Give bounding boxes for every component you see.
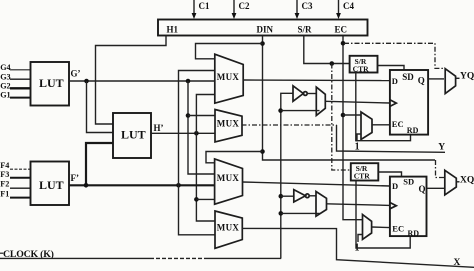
mux EC enable 1 — [355, 112, 390, 153]
svg-text:G4: G4 — [0, 63, 10, 72]
svg-text:CTR: CTR — [353, 64, 370, 73]
svg-text:S/R: S/R — [298, 25, 313, 35]
wire DIN branch to MUX3 — [206, 152, 263, 163]
svg-text:YQ: YQ — [460, 72, 474, 82]
wire G' drop to H LUT — [87, 81, 114, 133]
wire F' to MUX3 — [69, 184, 215, 186]
wire CLOCK K line dashed part — [150, 257, 205, 259]
svg-text:MUX: MUX — [217, 72, 240, 82]
flip-flop FF1 — [390, 70, 428, 135]
junction G' a — [84, 79, 89, 84]
node F2 input — [0, 180, 30, 189]
wire F' up to MUX1 — [179, 71, 215, 186]
wire K to inverter2 — [281, 195, 294, 197]
svg-text:CTR: CTR — [354, 172, 371, 181]
junction H' to MUX3 — [194, 197, 199, 202]
wire G' drop to MUX3 — [188, 81, 215, 174]
node C1 input line with arrow — [192, 0, 210, 19]
wire CLOCK K line end — [205, 257, 281, 259]
svg-text:1: 1 — [355, 142, 360, 153]
svg-text:MUX: MUX — [217, 173, 240, 183]
mux XQ output — [445, 170, 460, 195]
mux MUX4 — [215, 211, 242, 248]
junction K top — [278, 108, 283, 113]
svg-text:G’: G’ — [71, 69, 81, 79]
svg-text:SD: SD — [402, 72, 414, 82]
wire EC vertical drop — [343, 36, 363, 220]
wire EC bypass dash to YQ mux — [344, 43, 445, 68]
mux clock polarity 2 — [316, 192, 390, 217]
inverter clock 1 — [293, 86, 316, 102]
wire K to clock mux2 — [281, 212, 320, 214]
svg-text:G3: G3 — [0, 72, 10, 81]
node CLOCK K label — [0, 252, 3, 254]
svg-text:RD: RD — [408, 229, 420, 238]
node C4 input line with arrow — [336, 0, 354, 19]
wire MUX3 output to FF2 D — [243, 182, 390, 186]
wire H' down to MUX4 — [196, 133, 215, 221]
wire SD from S/R CTR2 — [378, 172, 401, 177]
svg-text:MUX: MUX — [217, 118, 240, 128]
junction DIN top — [260, 41, 265, 46]
svg-text:F3: F3 — [0, 170, 9, 179]
mux clock polarity 1 — [316, 87, 390, 115]
wire H' branch to MUX3 — [196, 198, 214, 200]
junction EC mid — [341, 113, 346, 118]
wire MUX1 output to FF1 D — [243, 79, 390, 82]
svg-text:G2: G2 — [0, 82, 10, 91]
svg-text:F4: F4 — [0, 161, 9, 170]
node C2 input line with arrow — [232, 0, 250, 19]
node C3 input line with arrow — [295, 0, 313, 19]
svg-text:Y: Y — [438, 143, 445, 153]
wire F' up to H LUT — [86, 143, 113, 185]
junction G' to MUX2 — [186, 113, 191, 118]
wire DIN branch to MUX1 — [196, 44, 263, 59]
mux MUX3 — [215, 159, 243, 204]
S/R control box 1 — [350, 56, 378, 74]
wire EC branch to EC mux 1 — [343, 114, 361, 116]
svg-text:F2: F2 — [0, 180, 9, 189]
inverter clock 2 — [294, 190, 316, 202]
svg-text:EC: EC — [392, 224, 404, 234]
mux MUX2 — [215, 110, 242, 142]
svg-text:EC: EC — [335, 25, 348, 35]
svg-text:Q: Q — [419, 184, 426, 194]
wire RD from S/R CTR1 — [356, 73, 411, 141]
wire CLOCK K line — [0, 257, 150, 259]
node G3 input — [0, 72, 30, 81]
LUT F function generator — [31, 162, 70, 206]
wire DIN vertical drop — [263, 36, 331, 161]
wire S/R from box to S/R CTR 1 — [304, 36, 350, 64]
wire H' up to MUX1 — [196, 95, 214, 134]
svg-text:X: X — [454, 258, 461, 268]
node G4 input — [0, 63, 30, 72]
flip-flop FF2 — [390, 177, 427, 239]
svg-text:C2: C2 — [239, 1, 250, 11]
control selector box H1 DIN S/R EC — [158, 20, 368, 36]
mux YQ output — [445, 69, 459, 94]
LUT G function generator — [31, 62, 70, 106]
svg-text:G1: G1 — [0, 91, 10, 100]
wire FF2 Q out — [427, 187, 445, 189]
svg-text:C3: C3 — [302, 1, 313, 11]
svg-text:H’: H’ — [154, 123, 164, 133]
wire DIN bypass to XQ mux — [330, 159, 435, 161]
wire Y output — [337, 125, 446, 152]
svg-text:LUT: LUT — [39, 178, 64, 192]
wire SD from S/R CTR1 — [378, 66, 405, 71]
wire H1 from box to H LUT — [96, 36, 167, 125]
wire K riser — [281, 93, 293, 258]
wire G' to MUX1 — [69, 80, 215, 82]
junction F' b — [176, 183, 181, 188]
junction K inverter2 — [279, 194, 284, 199]
svg-text:C4: C4 — [343, 1, 354, 11]
svg-text:DIN: DIN — [257, 25, 274, 35]
wire H' to MUX2 — [151, 132, 215, 134]
junction S/R — [330, 61, 335, 66]
wire K to clock mux1 — [281, 110, 320, 112]
wire F' down to MUX4 — [179, 185, 216, 235]
wire S/R drop to S/R CTR 2 — [332, 64, 351, 171]
svg-text:MUX: MUX — [217, 223, 240, 233]
wire MUX2 output dash — [242, 124, 337, 126]
node F3 input — [0, 170, 30, 179]
svg-text:F1: F1 — [0, 189, 9, 198]
S/R control box 2 — [351, 163, 379, 180]
svg-text:LUT: LUT — [39, 76, 64, 90]
wire FF1 Q out — [428, 78, 444, 80]
svg-text:H1: H1 — [167, 25, 179, 35]
svg-text:SD: SD — [403, 177, 414, 187]
wire MUX4 output — [242, 228, 474, 267]
junction F' a — [84, 183, 89, 188]
svg-text:LUT: LUT — [121, 128, 146, 142]
junction DIN mid — [260, 149, 265, 154]
node G1 input — [0, 91, 30, 100]
LUT H function generator — [113, 113, 151, 158]
wire G' branch to MUX2 — [188, 115, 215, 117]
svg-text:F’: F’ — [71, 173, 80, 183]
node F4 input — [0, 161, 30, 170]
wire RD from S/R CTR2 — [356, 181, 410, 249]
node G2 input — [0, 82, 30, 91]
svg-text:D: D — [392, 181, 398, 191]
junction K low — [279, 211, 284, 216]
svg-text:Q: Q — [418, 76, 425, 86]
svg-text:C1: C1 — [199, 1, 210, 11]
mux EC enable 2 — [355, 215, 390, 254]
node F1 input — [0, 189, 30, 198]
junction EC top — [341, 41, 346, 46]
svg-text:EC: EC — [392, 119, 404, 129]
svg-text:RD: RD — [407, 126, 419, 135]
junction H' — [194, 131, 199, 136]
svg-text:XQ: XQ — [460, 176, 474, 186]
junction G' b — [186, 79, 191, 84]
svg-text:D: D — [392, 76, 398, 86]
mux MUX1 — [215, 54, 243, 103]
